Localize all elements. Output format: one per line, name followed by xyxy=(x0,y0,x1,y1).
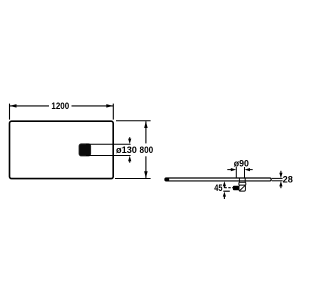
dimension ø90: left extension line xyxy=(235,167,237,178)
dimension ø90: value label xyxy=(234,159,249,169)
dimension 1200: dimension line with outward arrows xyxy=(10,104,114,108)
dimension 45: lower arrow pointing up to extension line xyxy=(223,192,226,199)
dimension 28: value label xyxy=(283,175,293,185)
dimension 800: value label xyxy=(140,145,154,155)
dimension ø130: value label xyxy=(116,145,137,155)
dimension 1200: right extension line xyxy=(112,104,114,120)
side view: waste trap body with diagonal xyxy=(239,185,245,191)
side view: dashed outlet pipe line xyxy=(224,187,233,189)
dimension ø90: outside arrows pointing inward xyxy=(227,168,252,171)
tray outline (plan view) xyxy=(10,121,114,178)
svg-text:28: 28 xyxy=(283,175,293,185)
svg-text:1200: 1200 xyxy=(51,101,69,112)
dimension 1200: value label xyxy=(51,101,69,112)
dimension 800: bottom extension line xyxy=(115,178,151,180)
dimension 28: top extension line xyxy=(272,177,283,179)
dimension ø130: lower leader line from drain xyxy=(86,155,131,157)
dimension 28: bottom extension line xyxy=(272,180,283,182)
svg-text:800: 800 xyxy=(140,145,154,155)
dimension ø130: outside arrows pointing inward xyxy=(128,137,131,163)
svg-text:45: 45 xyxy=(214,183,222,193)
dimension 28: outside arrows pointing inward xyxy=(279,171,282,188)
dimension 45: lower extension line xyxy=(223,190,230,192)
dimension 45: value label xyxy=(214,183,222,193)
side view: waste outlet (black block) xyxy=(233,186,239,191)
dimension ø90: right extension line xyxy=(244,167,246,178)
drain cover (plan view, black square) xyxy=(79,144,91,156)
dimension 800: top extension line xyxy=(116,120,151,122)
dimension ø130: upper leader line from drain xyxy=(86,143,131,145)
svg-text:ø130: ø130 xyxy=(116,145,137,155)
dimension 1200: left extension line xyxy=(9,104,11,120)
dimension 45: upper arrow pointing up to tray underside xyxy=(223,181,226,188)
side view: tray profile bar xyxy=(165,178,272,181)
side view: waste trap collar xyxy=(239,178,246,185)
dimension 800: dimension line with outward arrows xyxy=(144,121,148,178)
